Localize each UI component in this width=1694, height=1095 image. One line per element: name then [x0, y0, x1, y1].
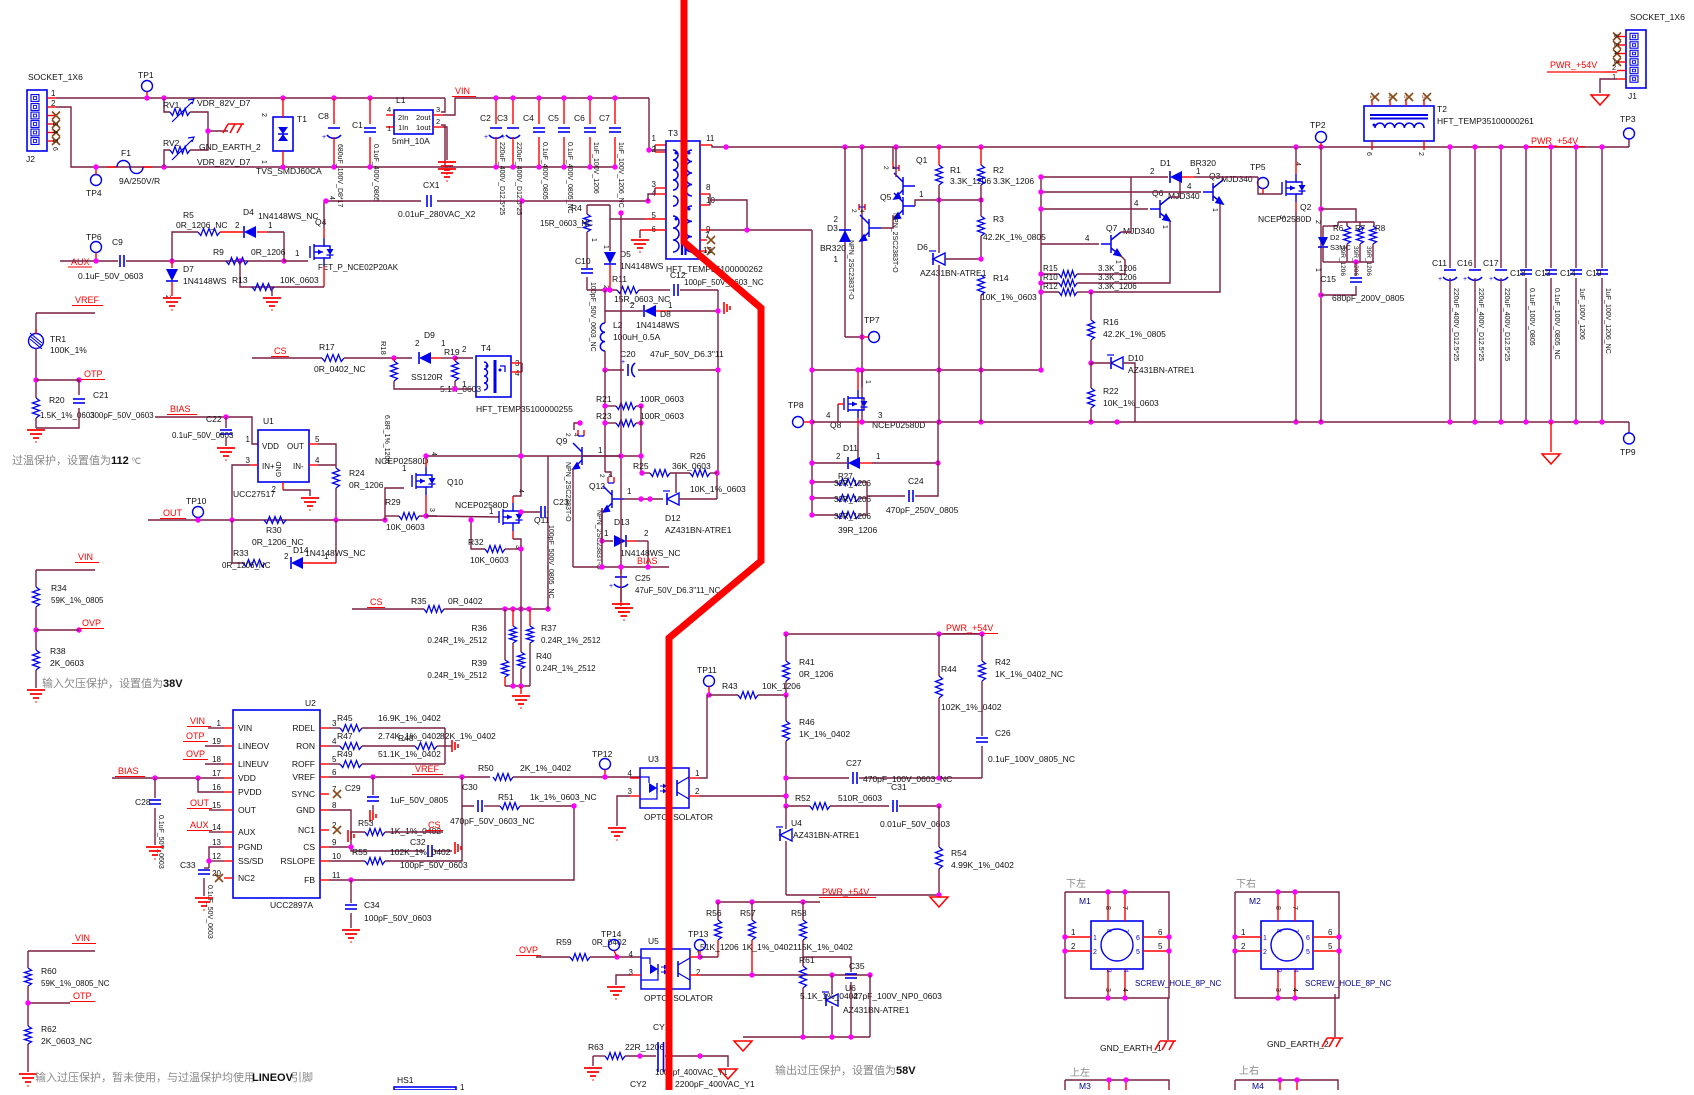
svg-text:220uF_400V_D12.5*25: 220uF_400V_D12.5*25 — [1452, 288, 1459, 361]
svg-text:Q7: Q7 — [1106, 223, 1118, 233]
svg-text:TP8: TP8 — [788, 400, 804, 410]
svg-text:4: 4 — [515, 369, 520, 378]
svg-text:R22: R22 — [1103, 386, 1119, 396]
optocoupler U5 OPTO-ISOLATOR — [641, 949, 690, 989]
capacitor C22 0.1uF_50V_0603 — [225, 417, 227, 428]
svg-text:IN-: IN- — [293, 462, 304, 471]
svg-text:OPTO-ISOLATOR: OPTO-ISOLATOR — [644, 993, 713, 1003]
svg-text:51.1K_1%_0402: 51.1K_1%_0402 — [378, 749, 441, 759]
ground at R62 — [19, 1074, 37, 1086]
svg-text:R3: R3 — [993, 214, 1004, 224]
svg-text:D4: D4 — [243, 207, 254, 217]
gnd triangle at J1 — [1591, 95, 1609, 105]
svg-text:6: 6 — [1158, 928, 1163, 937]
svg-text:1: 1 — [668, 301, 673, 310]
svg-text:C29: C29 — [345, 783, 361, 793]
svg-text:FB: FB — [304, 875, 315, 885]
svg-text:C20: C20 — [620, 349, 636, 359]
svg-text:输出过压保护，设置值为: 输出过压保护，设置值为 — [775, 1063, 896, 1077]
svg-text:NCEP02580D: NCEP02580D — [455, 500, 508, 510]
svg-text:5: 5 — [51, 139, 58, 143]
svg-text:OPTO-ISOLATOR: OPTO-ISOLATOR — [644, 812, 713, 822]
snubber bottom rail — [1338, 261, 1374, 263]
svg-text:4: 4 — [1292, 969, 1299, 973]
svg-text:220uF_400V_D12.5*25: 220uF_400V_D12.5*25 — [1477, 288, 1484, 361]
svg-text:VIN: VIN — [238, 723, 252, 733]
svg-text:D9: D9 — [424, 330, 435, 340]
resistor R41 0R_1206 — [785, 634, 787, 661]
svg-text:4: 4 — [1134, 199, 1139, 208]
snubber network R6 R7 R8 D2 — [1321, 209, 1356, 222]
svg-text:CY2: CY2 — [630, 1079, 647, 1089]
svg-text:C6: C6 — [574, 113, 585, 123]
svg-text:8: 8 — [332, 801, 337, 810]
resistor R39 0.24R_1%_2512 — [504, 609, 506, 660]
svg-text:R40: R40 — [536, 651, 552, 661]
capacitor C14 — [1575, 147, 1577, 268]
capacitor C35 47pF_100V_NP0_0603 — [803, 957, 851, 972]
capacitor C25 47uF_50V_D6.3*11_NC — [620, 567, 622, 574]
svg-text:1: 1 — [460, 1083, 465, 1090]
T3 pins 7/12 no connect — [700, 239, 707, 241]
resistor R23 100R_0603 — [605, 422, 616, 424]
svg-text:LINEOV: LINEOV — [238, 741, 270, 751]
svg-text:BR320: BR320 — [1190, 158, 1216, 168]
SYNC no connect — [333, 790, 341, 798]
svg-text:9A/250V/R: 9A/250V/R — [119, 176, 160, 186]
wire J2 pin2 to fuse — [56, 107, 445, 167]
svg-text:R51: R51 — [498, 792, 514, 802]
svg-text:2K_1%_0402: 2K_1%_0402 — [520, 763, 571, 773]
wire Q8 source to D11 row — [857, 426, 859, 463]
svg-text:R52: R52 — [795, 793, 811, 803]
svg-text:R14: R14 — [993, 273, 1009, 283]
svg-text:6: 6 — [1328, 928, 1333, 937]
wire BIAS rail — [573, 566, 669, 568]
resistor R37 0.24R_1%_2512 — [529, 609, 531, 626]
test point TP5 — [1258, 178, 1269, 189]
ground at output caps — [1550, 422, 1552, 452]
svg-text:VREF: VREF — [75, 295, 100, 305]
chassis mark at C32 — [455, 842, 461, 854]
svg-text:VDR_82V_D7: VDR_82V_D7 — [197, 157, 251, 167]
svg-text:2: 2 — [235, 221, 240, 230]
svg-text:6: 6 — [1306, 935, 1310, 942]
svg-text:NPN_2SC2383T-O: NPN_2SC2383T-O — [891, 213, 898, 273]
test point TP11 — [704, 676, 715, 687]
wire Q2 source down — [1295, 202, 1297, 212]
resistor R42 1K_1%_0402_NC — [981, 634, 983, 661]
wire BIAS to VDD/PVDD — [112, 777, 224, 779]
svg-text:OUT: OUT — [287, 442, 304, 451]
svg-text:TP12: TP12 — [592, 749, 613, 759]
resistor R40 0.24R_1%_2512 — [520, 609, 522, 652]
svg-text:1.5K_1%_0603: 1.5K_1%_0603 — [40, 411, 95, 420]
svg-text:RSLOPE: RSLOPE — [281, 856, 316, 866]
svg-text:1: 1 — [602, 245, 609, 249]
resistor R36 0.24R_1%_2512 — [512, 609, 514, 626]
svg-text:112: 112 — [111, 455, 129, 467]
svg-text:1: 1 — [652, 134, 657, 143]
diode D8 1N4148WS — [605, 290, 643, 311]
resistor R62 2K_0603_NC — [25, 1026, 32, 1044]
T3 primary winding 1-2 — [673, 150, 678, 190]
test point TP3 — [1624, 128, 1635, 139]
svg-text:R2: R2 — [993, 165, 1004, 175]
svg-text:1K_1%_0402_NC: 1K_1%_0402_NC — [995, 669, 1063, 679]
svg-text:+: + — [484, 134, 488, 141]
T3 secondary 11-8 — [686, 150, 692, 196]
T3 secondary 10-9 — [684, 206, 692, 252]
svg-text:C1: C1 — [352, 120, 363, 130]
svg-text:0.24R_1%_2512: 0.24R_1%_2512 — [541, 636, 601, 645]
wire J2 pin1 top bus — [56, 97, 445, 99]
svg-text:GND: GND — [296, 805, 315, 815]
svg-text:OUT: OUT — [238, 805, 256, 815]
svg-text:OTP: OTP — [73, 991, 92, 1001]
svg-text:3.3K_1206: 3.3K_1206 — [1098, 282, 1137, 291]
svg-text:220uF_400V_D12.5*25: 220uF_400V_D12.5*25 — [498, 142, 505, 215]
svg-text:C16: C16 — [1457, 258, 1473, 268]
svg-text:Q9: Q9 — [556, 436, 568, 446]
wire R18/R19 bottom rail — [394, 381, 473, 389]
svg-text:2: 2 — [850, 209, 857, 213]
svg-text:1uF_100V_1206_NC: 1uF_100V_1206_NC — [617, 142, 624, 208]
svg-text:TP6: TP6 — [86, 232, 102, 242]
chassis mark at R48 — [452, 740, 458, 752]
svg-text:0.1uF_100V_0805: 0.1uF_100V_0805 — [1528, 288, 1535, 346]
svg-text:CX1: CX1 — [423, 180, 440, 190]
svg-text:TR1: TR1 — [50, 334, 66, 344]
svg-text:M1: M1 — [1079, 896, 1091, 906]
svg-text:4.99K_1%_0402: 4.99K_1%_0402 — [951, 860, 1014, 870]
svg-text:11: 11 — [332, 871, 341, 880]
test point TP8 — [793, 417, 804, 428]
capacitor C30 470pF_50V_0603_NC — [477, 800, 479, 812]
svg-text:CS: CS — [428, 820, 441, 830]
svg-text:T2: T2 — [1437, 104, 1447, 114]
svg-text:1: 1 — [324, 552, 329, 561]
capacitor C32 100pF_50V_0603 — [351, 847, 424, 851]
svg-text:7: 7 — [705, 231, 710, 240]
resistor R13 10K_0603 — [252, 284, 274, 291]
svg-text:15R_0603_NC: 15R_0603_NC — [540, 219, 593, 228]
svg-text:300pF_50V_0603: 300pF_50V_0603 — [90, 411, 154, 420]
svg-text:+: + — [322, 134, 326, 141]
svg-text:7: 7 — [1292, 929, 1299, 933]
wire Q9 emitter down to BIAS rail — [572, 469, 574, 567]
svg-text:C21: C21 — [93, 390, 109, 400]
resistor R43 10K_1206 — [709, 694, 738, 696]
svg-text:7: 7 — [1291, 906, 1298, 910]
resistor R60 59K_1%_0805_NC — [25, 968, 32, 986]
capacitor C12 100pF_50V_0603_NC — [673, 284, 675, 296]
wire C20 left rail down — [604, 370, 606, 472]
svg-text:7: 7 — [1122, 929, 1129, 933]
T2 pin6/pin2 to bus — [1371, 141, 1373, 150]
diode D11 — [812, 462, 847, 464]
resistor R61 5.1K_1%_0402 — [802, 957, 804, 966]
svg-text:10K_1206: 10K_1206 — [762, 681, 801, 691]
svg-text:680uF_100V_D8*17: 680uF_100V_D8*17 — [336, 144, 343, 208]
wire y370 cross rail — [812, 369, 1041, 371]
svg-text:6: 6 — [332, 768, 337, 777]
svg-text:R43: R43 — [722, 681, 738, 691]
svg-text:NC2: NC2 — [238, 873, 255, 883]
capacitor C26 0.1uF_100V_0805_NC — [976, 737, 988, 739]
svg-text:2: 2 — [284, 552, 289, 561]
svg-text:SS120R: SS120R — [411, 372, 443, 382]
svg-text:10: 10 — [332, 852, 341, 861]
svg-text:0.1uF_50V_0603: 0.1uF_50V_0603 — [172, 431, 234, 440]
svg-text:C24: C24 — [908, 476, 924, 486]
resistor R1 3.3K_1206 — [938, 147, 940, 165]
svg-text:3: 3 — [1278, 215, 1285, 219]
svg-text:U4: U4 — [791, 818, 802, 828]
svg-text:C11: C11 — [1432, 258, 1447, 268]
svg-text:SS/SD: SS/SD — [238, 856, 264, 866]
svg-text:680pF_200V_0805: 680pF_200V_0805 — [1332, 293, 1405, 303]
capacitor C4 — [538, 98, 540, 124]
svg-text:0R_1206: 0R_1206 — [251, 247, 286, 257]
ground at C33 — [195, 898, 213, 910]
transistor Q9 NPN_2SC2383T-O — [574, 423, 580, 430]
svg-text:2: 2 — [882, 166, 889, 170]
svg-text:2: 2 — [272, 485, 277, 494]
svg-text:0R_1206_NC: 0R_1206_NC — [222, 561, 271, 570]
svg-text:3: 3 — [878, 411, 883, 420]
svg-text:5: 5 — [1328, 942, 1333, 951]
analog gnd mark at D8 — [724, 302, 730, 314]
svg-text:1uF_100V_1206: 1uF_100V_1206 — [592, 142, 599, 194]
svg-text:R58: R58 — [791, 908, 807, 918]
svg-text:C31: C31 — [891, 782, 907, 792]
svg-text:GND_EARTH_2: GND_EARTH_2 — [1267, 1039, 1329, 1049]
ground at C34 — [342, 930, 360, 942]
svg-text:8: 8 — [1105, 929, 1112, 933]
ground at D7 — [163, 298, 181, 310]
resistor R16 42.2K_1%_0805 — [1090, 292, 1092, 320]
svg-text:0.1uF_100V_0805_NC: 0.1uF_100V_0805_NC — [988, 754, 1075, 764]
svg-text:上右: 上右 — [1239, 1064, 1259, 1077]
svg-text:+: + — [1463, 276, 1467, 283]
svg-text:M3: M3 — [1079, 1081, 1091, 1090]
inductor L2 100uH_0.5A — [604, 311, 606, 323]
diode D13 1N4148WS_NC — [602, 508, 613, 541]
NC2 no connect — [215, 874, 223, 882]
resistor R11 15R_0603 — [617, 287, 639, 294]
svg-text:C32: C32 — [410, 837, 426, 847]
svg-text:10K_1%_0603: 10K_1%_0603 — [690, 484, 746, 494]
svg-text:0.1uF_100V_0805_NC: 0.1uF_100V_0805_NC — [1553, 288, 1560, 360]
ground at R38 — [27, 690, 45, 702]
wire U3 pin2 to R46 bottom — [689, 795, 699, 797]
svg-text:1K_1%_0402: 1K_1%_0402 — [742, 942, 793, 952]
svg-text:VREF: VREF — [415, 764, 440, 774]
capacitor C15 680pF_200V_0805 — [1355, 262, 1357, 276]
svg-text:4: 4 — [628, 769, 633, 778]
svg-text:1N4148WS: 1N4148WS — [183, 276, 227, 286]
svg-text:过温保护，设置值为: 过温保护，设置值为 — [12, 453, 111, 467]
svg-text:Q12: Q12 — [589, 481, 605, 491]
svg-text:3: 3 — [628, 787, 633, 796]
svg-text:47pF_100V_NP0_0603: 47pF_100V_NP0_0603 — [853, 991, 942, 1001]
svg-text:4: 4 — [1085, 234, 1090, 243]
svg-text:GND_EARTH_2: GND_EARTH_2 — [199, 142, 261, 152]
svg-text:RV2: RV2 — [163, 138, 180, 148]
svg-text:2: 2 — [564, 433, 571, 437]
svg-text:LINEOV: LINEOV — [252, 1072, 294, 1084]
svg-text:3: 3 — [1274, 988, 1281, 992]
svg-text:6: 6 — [1136, 935, 1140, 942]
shunt ref U6 AZ431BN-ATRE1 — [831, 975, 833, 994]
svg-text:+: + — [1489, 276, 1493, 283]
svg-text:4: 4 — [387, 105, 391, 114]
svg-text:SCREW_HOLE_8P_NC: SCREW_HOLE_8P_NC — [1305, 979, 1391, 988]
svg-text:2: 2 — [1241, 942, 1246, 951]
svg-text:CS: CS — [303, 842, 315, 852]
wire OUT bus — [148, 519, 385, 521]
wire cap bank bottom rail — [445, 166, 448, 168]
svg-text:Q4: Q4 — [315, 217, 327, 227]
svg-text:SCREW_HOLE_8P_NC: SCREW_HOLE_8P_NC — [1135, 979, 1221, 988]
svg-text:R29: R29 — [385, 497, 401, 507]
svg-text:PVDD: PVDD — [238, 787, 262, 797]
svg-text:1: 1 — [695, 769, 700, 778]
svg-text:1: 1 — [919, 190, 924, 199]
svg-text:1: 1 — [1211, 208, 1218, 212]
svg-text:AUX: AUX — [238, 827, 256, 837]
svg-text:1: 1 — [51, 89, 56, 98]
svg-text:5: 5 — [1158, 942, 1163, 951]
wire J1 pin2 — [1604, 71, 1617, 73]
svg-text:0.01uF_280VAC_X2: 0.01uF_280VAC_X2 — [398, 209, 476, 219]
svg-text:TP14: TP14 — [601, 929, 622, 939]
varistor RV2 — [164, 150, 170, 167]
svg-text:C30: C30 — [462, 782, 478, 792]
svg-text:1: 1 — [1071, 928, 1076, 937]
svg-text:D1: D1 — [1160, 158, 1171, 168]
wire CY1 right — [665, 1056, 728, 1067]
resistor R6 39R_1206 — [1344, 226, 1351, 244]
svg-text:R32: R32 — [468, 537, 484, 547]
ground at x621 bottom — [620, 601, 622, 606]
svg-text:8: 8 — [1104, 906, 1111, 910]
T3 pin 11 wire — [700, 144, 712, 146]
svg-text:R59: R59 — [556, 937, 572, 947]
svg-text:M2: M2 — [1249, 896, 1261, 906]
svg-text:VDD: VDD — [238, 773, 256, 783]
feedback bottom rail — [786, 894, 939, 896]
shunt reference D12 AZ431BN-ATRE1 — [667, 493, 679, 505]
svg-text:VIN: VIN — [78, 552, 93, 562]
test point TP2 — [1316, 132, 1327, 143]
svg-text:100R_0603: 100R_0603 — [640, 411, 684, 421]
transistor Q12 NPN_2SC2383T-O — [605, 472, 611, 477]
chassis mark at C29 — [370, 810, 376, 822]
svg-text:5.1K_1%_0402: 5.1K_1%_0402 — [800, 991, 858, 1001]
resistor R30 0R_1206_NC — [264, 517, 286, 524]
svg-text:R17: R17 — [319, 342, 335, 352]
svg-text:59K_1%_0805: 59K_1%_0805 — [51, 596, 104, 605]
common-mode choke L1 — [441, 98, 445, 112]
svg-text:R23: R23 — [596, 411, 612, 421]
svg-text:R45: R45 — [337, 713, 353, 723]
resistor R44 102K_1%_0402 — [938, 634, 940, 676]
svg-text:10K_0603: 10K_0603 — [280, 275, 319, 285]
svg-text:R46: R46 — [799, 717, 815, 727]
capacitor C29 1uF_50V_0805 — [372, 777, 374, 795]
svg-text:UCC2897A: UCC2897A — [270, 900, 313, 910]
svg-text:2: 2 — [415, 339, 420, 348]
svg-text:2K_0603_NC: 2K_0603_NC — [41, 1036, 92, 1046]
svg-text:TP9: TP9 — [1620, 447, 1636, 457]
svg-text:R55: R55 — [352, 847, 368, 857]
svg-text:42.2K_1%_0805: 42.2K_1%_0805 — [983, 232, 1046, 242]
resistor R53 1K_1%_0402 (CS) — [329, 832, 365, 847]
PWR rail feedback — [786, 633, 982, 635]
svg-text:47uF_50V_D6.3"11_NC: 47uF_50V_D6.3"11_NC — [635, 586, 721, 595]
svg-text:8: 8 — [706, 183, 711, 192]
svg-text:6: 6 — [1365, 152, 1372, 156]
ground at sense resistors — [512, 696, 530, 708]
ground at L1 — [438, 162, 456, 174]
wire C12 right down — [717, 290, 719, 473]
svg-text:1: 1 — [1196, 167, 1201, 176]
page boundary polyline (red) — [669, 0, 761, 1090]
resistor R48 82K_1%_0402 — [415, 743, 437, 750]
svg-text:D6: D6 — [917, 242, 928, 252]
svg-text:HS1: HS1 — [397, 1075, 414, 1085]
resistor R63 22R_1206 — [593, 1055, 605, 1057]
wire Q10 drain rail to x621 — [548, 455, 621, 457]
svg-text:0R_0402: 0R_0402 — [448, 596, 483, 606]
capacitor CX1 — [326, 200, 421, 202]
wire U5 pin3 to gnd — [631, 974, 641, 976]
screw hole M2 SCREW_HOLE_8P_NC — [1235, 892, 1339, 998]
ovp bottom rail — [743, 1036, 870, 1038]
svg-text:R24: R24 — [349, 468, 365, 478]
svg-text:TVS_SMDJ60CA: TVS_SMDJ60CA — [256, 166, 322, 176]
svg-text:+: + — [501, 134, 505, 141]
svg-text:R21: R21 — [596, 394, 612, 404]
wire AUX — [60, 260, 118, 262]
capacitor C27 470pF_100V_0603_NC — [786, 777, 849, 779]
svg-text:1: 1 — [462, 380, 467, 389]
svg-text:1: 1 — [1161, 225, 1168, 229]
test point TP4 — [91, 175, 102, 186]
svg-text:100pF_50V_0603_NC: 100pF_50V_0603_NC — [589, 282, 596, 352]
resistor R56 51K_1206 — [717, 902, 719, 920]
svg-text:RDEL: RDEL — [292, 723, 315, 733]
svg-text:39R_1206: 39R_1206 — [834, 495, 871, 504]
transistor Q3 MJD340 — [1041, 191, 1201, 193]
svg-text:TP10: TP10 — [186, 496, 207, 506]
svg-text:OTP: OTP — [84, 369, 103, 379]
svg-text:3: 3 — [1275, 969, 1282, 973]
svg-text:C18: C18 — [1510, 268, 1526, 278]
svg-text:输入欠压保护，设置值为: 输入欠压保护，设置值为 — [42, 676, 163, 690]
wires transistor cluster — [881, 215, 893, 228]
svg-text:1: 1 — [1368, 95, 1375, 99]
ground at U3 — [608, 828, 626, 840]
wire Q4 source to R13 — [323, 266, 325, 287]
svg-text:引脚: 引脚 — [291, 1070, 313, 1084]
svg-text:1: 1 — [1263, 935, 1267, 942]
transformer T4 HFT_TEMP35100000255 — [476, 356, 511, 397]
top bus junction dots — [842, 144, 847, 149]
wire Q8 drain/source — [857, 370, 859, 390]
